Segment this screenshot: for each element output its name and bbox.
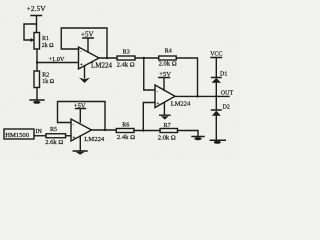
svg-text:+5V: +5V [81, 30, 94, 38]
svg-text:+2.5V: +2.5V [27, 4, 47, 13]
svg-text:2.4k Ω: 2.4k Ω [117, 134, 135, 141]
svg-text:R3: R3 [123, 50, 130, 56]
svg-text:+: + [80, 63, 83, 68]
svg-text:+: + [73, 136, 76, 141]
svg-text:VCC: VCC [210, 51, 222, 57]
svg-text:D1: D1 [220, 72, 227, 78]
svg-text:2.0k Ω: 2.0k Ω [159, 60, 177, 67]
svg-text:R7: R7 [164, 123, 171, 129]
svg-text:R2: R2 [42, 73, 49, 79]
svg-text:2.0k Ω: 2.0k Ω [158, 134, 176, 141]
svg-text:+1.0V: +1.0V [49, 56, 65, 63]
svg-text:1k Ω: 1k Ω [42, 79, 54, 85]
svg-text:+: + [157, 102, 160, 107]
svg-text:LM224: LM224 [91, 62, 113, 70]
svg-text:HM1500: HM1500 [5, 132, 30, 139]
svg-text:R6: R6 [122, 123, 129, 129]
svg-text:R1: R1 [42, 36, 49, 42]
svg-text:2k Ω: 2k Ω [42, 43, 54, 49]
svg-text:R4: R4 [165, 48, 172, 54]
svg-text:2.6k Ω: 2.6k Ω [45, 139, 63, 146]
svg-text:IN: IN [36, 129, 43, 135]
svg-text:LM224: LM224 [171, 100, 191, 107]
svg-text:R5: R5 [50, 127, 57, 133]
svg-text:LM224: LM224 [84, 136, 105, 143]
svg-text:+5V: +5V [74, 103, 86, 110]
svg-text:D2: D2 [223, 105, 230, 111]
svg-text:2.4k Ω: 2.4k Ω [117, 62, 135, 69]
svg-text:OUT: OUT [221, 90, 234, 96]
svg-text:+5V: +5V [159, 71, 171, 78]
